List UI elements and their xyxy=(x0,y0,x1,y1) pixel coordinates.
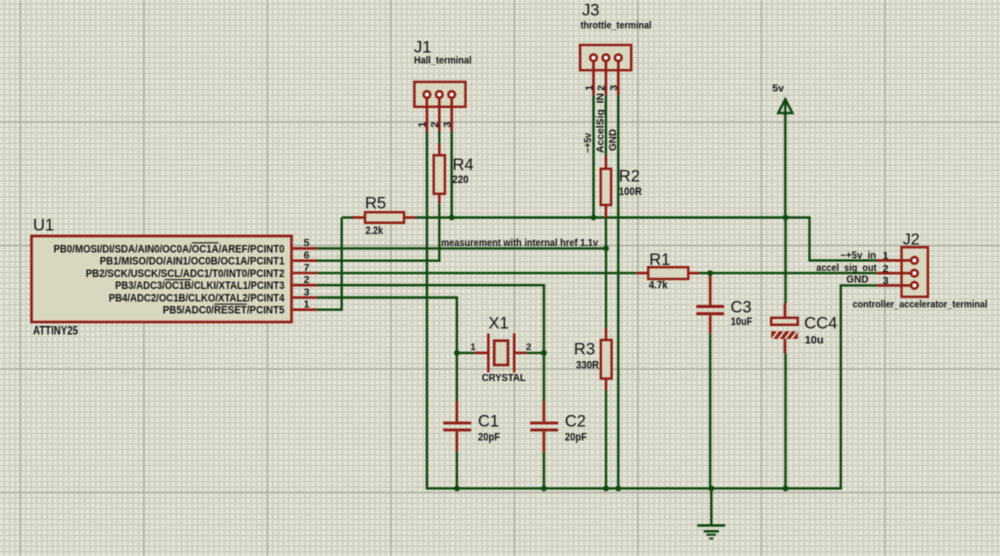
capacitor C3 bottom lead xyxy=(709,315,712,334)
U1 pin 7 stub xyxy=(293,272,317,275)
connector J1 body xyxy=(414,82,465,107)
U1 pin 6 stub xyxy=(293,259,317,262)
U1 pin 3 stub xyxy=(293,296,317,299)
wire +5v rail to J2 pin1 xyxy=(416,218,877,261)
junction dot PB0 / R2-R3 xyxy=(603,246,609,252)
svg-text:CC4: CC4 xyxy=(804,315,837,333)
capacitor C3 top lead xyxy=(709,273,712,305)
resistor R5 body xyxy=(365,212,404,223)
capacitor C3 plates xyxy=(696,305,724,308)
resistor R4 top lead xyxy=(438,144,441,156)
crystal X1 left plate xyxy=(487,334,490,373)
svg-text:U1: U1 xyxy=(33,216,54,234)
svg-text:10u: 10u xyxy=(805,335,824,347)
IC U1 ATTINY25 body xyxy=(32,236,292,322)
resistor R3 top lead xyxy=(605,328,608,340)
crystal X1 right plate xyxy=(513,334,516,373)
svg-text:R1: R1 xyxy=(649,251,670,269)
svg-text:PB1/MISO/DO/AIN1/OC0B/OC1A/PCI: PB1/MISO/DO/AIN1/OC0B/OC1A/PCINT1 xyxy=(100,256,285,268)
wire PB5 row up to R5 left xyxy=(317,218,342,310)
junction dot C2 / ground rail xyxy=(541,486,547,492)
svg-text:~+5v_in: ~+5v_in xyxy=(840,250,876,261)
junction dot crystal pin1 / C1 xyxy=(454,350,460,356)
junction dot J3 pin3 / ground rail xyxy=(615,486,621,492)
svg-text:measurement with internal href: measurement with internal href 1.1v xyxy=(441,238,599,249)
svg-text:3: 3 xyxy=(442,122,454,128)
svg-text:5: 5 xyxy=(304,237,310,249)
junction dot 5v stem / rail xyxy=(783,215,789,221)
svg-text:4.7k: 4.7k xyxy=(649,280,669,292)
svg-text:6: 6 xyxy=(304,250,310,262)
svg-text:X1: X1 xyxy=(489,315,509,333)
svg-text:20pF: 20pF xyxy=(478,432,500,444)
J3 pin circle 3 xyxy=(615,54,622,61)
svg-text:1: 1 xyxy=(470,342,476,353)
resistor R2 body xyxy=(601,169,611,205)
capacitor C2 plates xyxy=(530,422,558,425)
capacitor CC4 top lead xyxy=(784,303,787,318)
svg-text:CRYSTAL: CRYSTAL xyxy=(482,372,527,384)
J3 pin circle 2 xyxy=(603,54,610,61)
ground bar 2 xyxy=(704,530,719,532)
wire crystal pin1 stub xyxy=(457,352,475,354)
junction dot crystal pin2 / C2 xyxy=(541,350,547,356)
resistor R1 left lead xyxy=(636,272,648,275)
svg-text:220: 220 xyxy=(452,174,468,186)
svg-text:C2: C2 xyxy=(565,413,586,431)
wire PB1 row to R4 bottom xyxy=(317,204,439,261)
capacitor CC4 top plate xyxy=(771,318,798,325)
svg-text:1: 1 xyxy=(583,85,595,91)
wire J3 pin3 to ground rail xyxy=(617,95,619,488)
svg-text:2.2k: 2.2k xyxy=(366,225,384,237)
connector J3 body xyxy=(580,45,631,70)
svg-text:3: 3 xyxy=(608,85,620,91)
resistor R1 body xyxy=(648,267,688,279)
junction dot J3 pin1 / +5v rail xyxy=(591,215,597,221)
power symbol 5v arrow xyxy=(778,99,792,113)
J2 pin circle 3 xyxy=(911,282,918,289)
resistor R3 bottom lead xyxy=(605,379,608,391)
wire PB4 row to crystal pin1 xyxy=(317,298,457,353)
capacitor C1 plates xyxy=(443,422,471,425)
junction dot R3 / ground rail xyxy=(603,486,609,492)
svg-text:PB0/MOSI/DI/SDA/AIN0/OC0A/OC1A: PB0/MOSI/DI/SDA/AIN0/OC0A/OC1A/AREF/PCIN… xyxy=(54,243,285,255)
svg-text:C1: C1 xyxy=(478,413,499,431)
svg-text:throttle_terminal: throttle_terminal xyxy=(581,21,652,32)
wire J3 pin1 to +5v rail xyxy=(592,95,594,217)
J1 pin circle 2 xyxy=(436,91,443,98)
junction dot R1 / C3 xyxy=(707,270,713,276)
wire CC4 to ground rail xyxy=(784,354,786,489)
svg-text:2: 2 xyxy=(526,342,531,353)
junction dot ground stem / rail xyxy=(708,486,714,492)
ground bar 4 xyxy=(709,538,713,540)
J2 pin circle 1 xyxy=(911,257,918,264)
wire J3 pin2 to R2 xyxy=(605,95,607,155)
capacitor CC4 bottom lead xyxy=(784,339,787,354)
junction dot CC4 / ground rail xyxy=(783,486,789,492)
capacitor C2 top lead xyxy=(543,401,546,422)
svg-text:Hall_terminal: Hall_terminal xyxy=(414,56,472,67)
U1 pin 1 stub xyxy=(293,308,317,311)
junction dot C1 / ground rail xyxy=(454,486,460,492)
capacitor C1 top lead xyxy=(456,401,459,422)
svg-text:2: 2 xyxy=(596,85,608,91)
resistor R2 bottom lead xyxy=(605,205,608,218)
svg-text:7: 7 xyxy=(304,262,310,274)
wire R1 right to J2 pin2 xyxy=(699,272,877,274)
svg-text:controller_accelerator_termina: controller_accelerator_terminal xyxy=(853,300,988,311)
wire 5v stem to rail xyxy=(784,99,786,217)
svg-text:330R: 330R xyxy=(576,360,599,372)
junction dot J1 pin3 / +5v rail xyxy=(449,215,455,221)
svg-text:PB5/ADC0/RESET/PCINT5: PB5/ADC0/RESET/PCINT5 xyxy=(163,305,285,317)
resistor R2 top lead xyxy=(605,156,608,169)
svg-text:3: 3 xyxy=(304,286,310,298)
J3 pin stubs xyxy=(592,62,595,95)
ground bar 1 xyxy=(697,524,725,527)
resistor R5 left lead xyxy=(353,216,366,219)
svg-text:ATTINY25: ATTINY25 xyxy=(33,324,78,338)
J2 pin stubs xyxy=(877,259,911,262)
crystal X1 pin1 lead xyxy=(475,352,489,355)
U1 pin 2 stub xyxy=(293,284,317,287)
J1 pin circle 3 xyxy=(448,91,455,98)
svg-text:2: 2 xyxy=(429,122,441,128)
svg-text:10uF: 10uF xyxy=(731,316,753,328)
svg-text:GND: GND xyxy=(846,274,868,285)
svg-text:J2: J2 xyxy=(903,232,920,249)
wire R3 bottom to ground rail xyxy=(605,391,607,489)
svg-text:3: 3 xyxy=(883,275,889,287)
resistor R4 bottom lead xyxy=(438,194,441,204)
svg-text:1: 1 xyxy=(304,299,310,311)
resistor R4 body xyxy=(434,155,445,194)
wire PB0 row to R2/R3 node xyxy=(317,247,606,249)
wire crystal pin2 stub xyxy=(527,352,544,354)
U1 pin 5 stub xyxy=(293,247,317,250)
svg-text:1: 1 xyxy=(883,250,889,262)
wire J1 pin1 down to ground rail and J2 GND xyxy=(427,132,877,489)
wire R5 left stub xyxy=(342,216,354,218)
wire C3 to ground rail xyxy=(709,334,711,488)
wire R2 bottom to PB0 node xyxy=(605,218,607,248)
capacitor C1 bottom lead xyxy=(456,431,459,451)
resistor R5 right lead xyxy=(404,216,416,219)
svg-text:J3: J3 xyxy=(582,2,599,20)
crystal X1 body xyxy=(494,341,508,365)
svg-text:PB4/ADC2/OC1B/CLKO/XTAL2/PCINT: PB4/ADC2/OC1B/CLKO/XTAL2/PCINT4 xyxy=(109,292,286,304)
svg-text:C3: C3 xyxy=(731,299,752,317)
ground bar 3 xyxy=(707,534,716,536)
svg-text:2: 2 xyxy=(883,263,889,275)
wire J1 pin2 to R4 xyxy=(438,132,440,144)
crystal X1 pin2 lead xyxy=(514,352,526,355)
J3 pin circle 1 xyxy=(590,54,597,61)
svg-text:R5: R5 xyxy=(365,195,386,213)
svg-text:PB3/ADC3/OC1B/CLKI/XTAL1/PCINT: PB3/ADC3/OC1B/CLKI/XTAL1/PCINT3 xyxy=(115,280,284,292)
wire PB3 row to crystal pin2 xyxy=(317,285,544,353)
svg-text:accel_sig_out: accel_sig_out xyxy=(816,263,877,274)
wire PB2 row to R1 left xyxy=(317,272,636,274)
J2 pin circle 2 xyxy=(911,270,918,277)
svg-text:1: 1 xyxy=(417,122,429,128)
svg-text:J1: J1 xyxy=(414,39,431,57)
capacitor CC4 bottom plate hatched xyxy=(771,331,798,339)
wire J1 pin3 to +5v rail xyxy=(451,132,453,218)
svg-text:100R: 100R xyxy=(619,186,642,198)
svg-text:5v: 5v xyxy=(772,82,784,94)
svg-text:R3: R3 xyxy=(574,341,595,359)
svg-text:R4: R4 xyxy=(453,156,474,174)
ground symbol stem xyxy=(710,488,712,525)
connector J2 body xyxy=(902,247,928,297)
svg-text:R2: R2 xyxy=(619,168,640,186)
wire crystal pin1 down to C1 xyxy=(456,353,458,401)
wire C2 to ground rail xyxy=(543,452,545,489)
svg-text:PB2/SCK/USCK/SCL/ADC1/T0/INT0/: PB2/SCK/USCK/SCL/ADC1/T0/INT0/PCINT2 xyxy=(86,268,285,280)
resistor R3 body xyxy=(601,340,612,379)
resistor R1 right lead xyxy=(688,272,699,275)
svg-text:2: 2 xyxy=(304,274,310,286)
wire PB0 node down to R3 xyxy=(605,248,607,328)
wire crystal pin2 down to C2 xyxy=(543,353,545,401)
svg-text:20pF: 20pF xyxy=(565,432,587,444)
J1 pin circle 1 xyxy=(424,91,431,98)
wire C1 to ground rail xyxy=(456,452,458,489)
capacitor C2 bottom lead xyxy=(543,431,546,451)
wire rail down to CC4 xyxy=(784,218,786,304)
J1 pin stubs xyxy=(426,99,429,132)
